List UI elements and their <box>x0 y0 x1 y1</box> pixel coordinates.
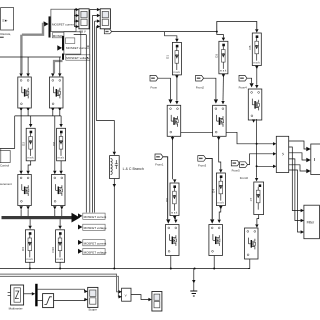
svg-text:D10: D10 <box>51 247 55 253</box>
subsystem block right <box>311 144 320 175</box>
wire main gate bus top <box>112 31 217 33</box>
scope SB2 input arrows <box>97 8 100 28</box>
arrow into CM1 top <box>255 178 258 181</box>
arrow into D2 top <box>29 124 32 127</box>
node M5 bus junction <box>213 268 215 270</box>
wire D4 bottom to M5 drain <box>219 206 221 220</box>
wire mux top out to scope3 <box>38 289 85 291</box>
svg-text:MOSFET current: MOSFET current <box>84 241 107 245</box>
mosfet block K2 <box>50 77 64 108</box>
arrow into K1 left port <box>19 73 22 76</box>
wire multimeter to mux <box>24 293 32 295</box>
arrow into M1 gate <box>168 99 172 103</box>
svg-text:CT: CT <box>249 197 253 201</box>
thick measurement bus <box>2 216 72 219</box>
wire selector outputs down to filter <box>289 147 301 232</box>
node ground junction <box>194 268 196 270</box>
arrow out D3 bottom <box>222 74 225 77</box>
wire bus drop to D10 <box>59 219 61 226</box>
arrow into D8 top <box>59 124 62 127</box>
svg-text:MOSFET voltage: MOSFET voltage <box>84 226 107 230</box>
svg-text:VI: VI <box>281 152 285 155</box>
wire thick gray from Q2 to K2 left port <box>54 61 63 73</box>
wire M6 source to ground bus <box>248 259 250 268</box>
wire mid rail drop to D8 <box>60 116 62 124</box>
return bus double line <box>0 274 119 292</box>
svg-text:D5: D5 <box>248 45 252 49</box>
wire dc rail left <box>0 56 61 58</box>
arrow into K1 right port <box>26 73 29 76</box>
diode D4 <box>216 173 225 206</box>
scope block 4 <box>152 292 162 312</box>
arrow out D4 bottom <box>219 206 222 209</box>
measurement label box MOSFET voltage (bottom pair 2) <box>78 249 107 255</box>
svg-text:L & C Branch: L & C Branch <box>123 167 144 171</box>
wire M4 to ground bus <box>170 256 172 269</box>
arrow into M4 gate <box>166 219 170 223</box>
svg-text:D6: D6 <box>165 198 169 202</box>
arrow into D4 top <box>219 169 222 172</box>
arrow into D5 top <box>255 29 258 32</box>
wire gate drop to row2 K3 <box>20 116 22 171</box>
mosfet block M3 <box>248 89 261 120</box>
arrow out M3 bottom <box>252 119 255 122</box>
arrow into K3 right port <box>26 171 29 174</box>
arrow into scope3 in1 <box>84 290 87 293</box>
from tag From6 <box>240 162 249 180</box>
node M4 bus junction <box>170 268 172 270</box>
wire branch to D3 <box>217 32 224 38</box>
mosfet symbol Q2 (discrete) <box>57 36 64 60</box>
diode D5 <box>252 33 261 66</box>
scope SB1 input arrows <box>74 8 79 28</box>
arrow into K3 left port <box>19 171 22 174</box>
arrow into M2 gate <box>214 99 218 103</box>
arrow into K4 right port <box>59 171 62 174</box>
svg-text:☰■·: ☰■· <box>2 19 8 23</box>
arrow into D6 top <box>28 226 31 229</box>
arrow into selector in1 <box>273 142 276 145</box>
from tag From3 <box>198 156 207 168</box>
wire branch up to D5 <box>217 22 257 32</box>
wire M5 to ground bus <box>213 256 215 269</box>
wire D7 bottom to M4 drain <box>175 216 176 220</box>
from tag From4 <box>239 75 248 89</box>
arrow into K2 left port <box>51 73 54 76</box>
wire D10 bottom to ground bus <box>59 262 61 268</box>
wire From3 to M5 gate <box>206 158 212 219</box>
measurement subsystem box pair 1 <box>51 9 76 31</box>
mosfet block M4 <box>166 225 180 256</box>
svg-text:D1: D1 <box>165 55 169 59</box>
wire selector out to scope arrows <box>289 141 307 171</box>
svg-text:D3: D3 <box>214 54 218 58</box>
arrow out D7 bottom <box>173 216 176 219</box>
svg-text:Filter: Filter <box>307 220 315 224</box>
diode D1 <box>172 42 181 75</box>
thick bus arrowhead <box>72 213 81 223</box>
arrow into M5 drain <box>218 220 221 223</box>
ground symbol <box>190 291 197 296</box>
bus selector block VI <box>276 136 288 172</box>
wire M1 source down to D7 <box>172 136 174 179</box>
node junction selector in1 <box>256 143 258 145</box>
goto tag Gain <box>104 29 111 34</box>
measurement label box MOSFET voltage (bottom pair 1) <box>78 224 107 230</box>
wire drops into thick bus <box>21 210 62 217</box>
svg-text:From6: From6 <box>240 176 249 180</box>
from tag From <box>150 75 158 89</box>
svg-text:From1: From1 <box>155 163 164 167</box>
svg-text:From3: From3 <box>198 163 207 167</box>
arrow into ground <box>192 280 195 283</box>
arrow out D1 bottom <box>175 75 178 78</box>
mosfet block M6 <box>245 228 259 259</box>
arrows out of K1 bottom <box>19 108 29 111</box>
diode D10 <box>56 230 65 262</box>
wire D8 bottom to K4 <box>60 161 62 171</box>
diode D8 <box>57 128 66 161</box>
arrow into D1 top <box>175 39 178 42</box>
from tag From2 <box>196 75 205 89</box>
from tag From5 <box>231 160 240 172</box>
wire CM1 out to M6 <box>257 215 259 225</box>
svg-text:From5: From5 <box>232 169 241 173</box>
svg-text:V: V <box>125 293 127 297</box>
wire bus drop to D6 <box>29 219 31 226</box>
arrows into right scope <box>306 147 310 173</box>
mosfet block M1 <box>167 105 181 136</box>
node D6 bus junction <box>29 268 31 270</box>
mosfet block K4 <box>52 175 66 206</box>
node D10 bus junction <box>59 268 61 270</box>
wire D6 bottom to ground bus <box>29 262 31 268</box>
arrow into selector in2 <box>273 152 276 155</box>
wire thick gray drop to left leg block K1 <box>20 35 22 73</box>
svg-text:D8: D8 <box>52 142 56 146</box>
arrow into D7 top <box>173 179 176 182</box>
wire M3 source down to CM1 <box>256 119 258 178</box>
arrows into filter inputs <box>301 209 304 234</box>
arrows out of K4 bottom <box>53 206 63 209</box>
node junction selector in3 <box>256 165 258 167</box>
arrow into M3 drain <box>255 85 258 88</box>
wire drop to K2 right port <box>59 57 61 73</box>
arrow into M6 drain <box>255 224 258 227</box>
scope block 3 <box>88 287 98 311</box>
current measurement block CM1 <box>249 182 263 215</box>
wire left control feed <box>0 116 15 149</box>
arrow into M4 drain <box>174 220 177 223</box>
node L&C bus junction <box>113 268 115 270</box>
mosfet block K1 <box>18 77 32 108</box>
arrow into K2 right port <box>58 73 61 76</box>
L and C branch block <box>110 156 120 179</box>
wire From to M1 gate <box>158 78 171 99</box>
node junction on gate bus <box>216 31 218 33</box>
svg-text:D6: D6 <box>21 247 25 251</box>
wire D2 bottom to K3 <box>28 161 31 171</box>
arrow into M1 drain <box>175 101 178 104</box>
svg-text:Discrete,: Discrete, <box>0 32 11 36</box>
arrow into mux <box>32 292 35 295</box>
wire mid rail drop to D2 <box>30 116 32 124</box>
diode D6 <box>25 230 34 262</box>
arrow into K4 left port <box>53 171 56 174</box>
arrow into selector in3 <box>273 165 276 168</box>
scope SB1 <box>79 9 89 29</box>
wire From2 to M2 gate <box>204 78 216 99</box>
arrow out M1 bottom <box>171 137 174 140</box>
left rail stub <box>0 149 2 164</box>
wire From6 up to selector in2 <box>248 154 274 165</box>
wire saturation out to scope3 <box>54 300 85 301</box>
measurement label box MOSFET voltage (pair 2) <box>66 55 90 60</box>
wire D3 bottom to M2 drain <box>222 74 224 101</box>
arrows out of K2 bottom <box>51 108 61 111</box>
measurement subsystem box pair 2 <box>64 32 89 54</box>
wire bundle elbow to L&C branch <box>96 121 114 147</box>
wire K1 bottom to mid rail <box>15 111 61 116</box>
wire L&C bottom down <box>113 179 115 269</box>
diode D3 <box>219 41 228 74</box>
wire VB out to scope4 <box>131 295 149 300</box>
wire M1-M2 source link <box>181 131 213 133</box>
arrow into M3 gate <box>250 83 254 87</box>
svg-text:surement: surement <box>0 182 12 186</box>
svg-text:D2: D2 <box>22 142 26 146</box>
mux bar <box>35 284 37 307</box>
arrow into D10 top <box>58 226 61 229</box>
svg-text:Scope: Scope <box>88 307 97 311</box>
arrow into VB in1 <box>119 290 122 293</box>
svg-text:SB V: SB V <box>79 30 86 34</box>
wire D5 bottom to M3 drain <box>256 66 258 85</box>
wire From1 to M4 gate <box>163 157 168 219</box>
wire M2 source down to D4 <box>219 136 221 169</box>
arrow out M2 bottom <box>217 137 220 140</box>
from tag From1 <box>155 154 164 167</box>
svg-text:Multimeter: Multimeter <box>9 307 23 311</box>
multimeter block <box>8 285 24 311</box>
wire elbow from label boxes into bundle <box>74 27 97 213</box>
svg-text:MOSFET current: MOSFET current <box>66 46 89 50</box>
svg-text:MOSFET voltage: MOSFET voltage <box>84 250 107 254</box>
control subsystem stub at left edge <box>0 151 10 168</box>
arrow into VB in2 <box>119 295 122 298</box>
scope SB2 <box>100 9 110 29</box>
filter block <box>304 205 320 239</box>
measurement label box MOSFET voltage (pair 1) <box>52 33 76 38</box>
arrow out D5 bottom <box>255 66 258 69</box>
svg-text:From: From <box>151 85 158 89</box>
wire branch to D1 <box>165 32 177 39</box>
arrow into L&C top <box>113 152 116 155</box>
wire mux to saturation <box>38 300 43 302</box>
mosfet block M5 <box>209 225 223 256</box>
mosfet symbol Q1 (discrete) <box>44 16 51 37</box>
mosfet block K3 <box>18 175 32 206</box>
svg-text:Control: Control <box>0 164 9 168</box>
measurement label box MOSFET current (bottom pair 1) <box>78 213 106 219</box>
saturation block <box>43 294 54 308</box>
svg-text:MOSFET current: MOSFET current <box>84 215 107 219</box>
arrow into scope3 in2 <box>84 298 87 301</box>
svg-text:From2: From2 <box>196 85 205 89</box>
wire M2 side to selector input 1 <box>226 132 273 144</box>
wire bundle verticals feeding SB2 <box>90 10 97 213</box>
diode D2 <box>26 128 35 161</box>
svg-text:From4: From4 <box>239 85 248 89</box>
wire gate drop to row2 K4 <box>54 116 56 171</box>
svg-text:MOSFET current: MOSFET current <box>52 23 75 27</box>
measurement label box MOSFET current (bottom pair 2) <box>78 240 106 246</box>
VB product block <box>122 288 131 301</box>
arrow into scope4 <box>148 298 151 301</box>
wire thick gray to Q1 gate <box>22 24 44 35</box>
wire down to ground symbol <box>193 269 195 291</box>
wire D1 bottom to M1 drain <box>176 75 178 101</box>
diode D7 <box>170 183 179 216</box>
arrow below L&C <box>113 184 116 187</box>
arrow into M5 gate <box>210 219 214 223</box>
wire junction to selector in3 <box>257 165 274 167</box>
mosfet block M2 <box>213 105 227 136</box>
arrow into D3 top <box>222 38 225 41</box>
ground bus rail <box>0 268 250 270</box>
arrow into M2 drain <box>221 101 224 104</box>
powergui block U0 <box>0 8 14 38</box>
arrows out of K3 bottom <box>19 206 29 209</box>
wire From4 to M3 gate <box>247 78 252 83</box>
wire drop to K1 right port <box>27 57 29 73</box>
